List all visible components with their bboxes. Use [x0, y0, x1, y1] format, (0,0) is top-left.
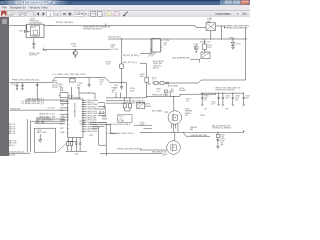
resistor R7911 label: [156, 89, 161, 93]
ground bottom right: [216, 147, 220, 149]
junction dots SLP rail: [121, 38, 211, 39]
capacitor C7923 plates: [120, 83, 123, 91]
svg-text:ACP: ACP: [61, 127, 64, 130]
svg-text:C7961: C7961: [211, 101, 216, 103]
wire ACIN row: [25, 99, 68, 101]
diode D7751: [166, 82, 169, 84]
capacitor C7962: [222, 93, 224, 106]
resistor R7751: [154, 82, 158, 85]
bottom page line: [9, 151, 31, 157]
svg-text:ACOK_DELAY: ACOK_DELAY: [168, 84, 179, 87]
window title bar: [0, 0, 250, 5]
diode D7005: [19, 30, 31, 32]
svg-text:R7904: R7904: [130, 88, 135, 90]
note rows right: [100, 79, 105, 85]
row net label L7910 a: [106, 100, 145, 102]
svg-text:SLOW: SLOW: [53, 85, 58, 87]
svg-text:R7950: R7950: [58, 84, 63, 86]
svg-text:CHGR_BGATE: CHGR_BGATE: [87, 99, 98, 102]
fit page icon: [97, 11, 102, 16]
svg-text:X5R: X5R: [225, 109, 229, 111]
svg-text:PP18V5_DCIN_SW_SRC: PP18V5_DCIN_SW_SRC: [226, 28, 248, 30]
svg-text:PRECHG: PRECHG: [190, 127, 198, 129]
page number box: [47, 11, 54, 16]
svg-text:ACIN: ACIN: [60, 99, 64, 102]
svg-text:BLOW: BLOW: [53, 87, 58, 89]
prev page arrow: [37, 12, 39, 16]
svg-text:0.1uF: 0.1uF: [211, 103, 215, 105]
title halo: [0, 0, 76, 5]
svg-text:PM_SLP_S4: PM_SLP_S4: [200, 41, 210, 43]
svg-text:SCL: SCL: [62, 116, 65, 118]
wire VDD feed: [71, 87, 73, 99]
svg-text:+C7903: +C7903: [164, 40, 170, 42]
junction PPBUS-R7905: [121, 82, 122, 83]
svg-text:1%: 1%: [100, 84, 103, 86]
svg-text:BATT_TH1: BATT_TH1: [9, 139, 17, 142]
battery connector drops: [27, 119, 30, 152]
transistor Q7705: [194, 46, 198, 53]
svg-text:CHGR_CSOP: CHGR_CSOP: [87, 111, 97, 113]
cluster R7950: [58, 84, 63, 90]
wire AON sense: [44, 48, 111, 50]
comparator box U7005: [59, 93, 69, 98]
junction gate: [170, 96, 174, 97]
svg-text:CHGR_CSON: CHGR_CSON: [87, 113, 98, 115]
IC right pin net labels: [87, 99, 98, 133]
svg-text:2.2uF 6.3V: 2.2uF 6.3V: [29, 55, 38, 57]
svg-text:PPBUS_G3H_BGATE: PPBUS_G3H_BGATE: [152, 93, 170, 96]
svg-text:+ PRECHG_BAT_PWR: + PRECHG_BAT_PWR: [190, 134, 208, 137]
svg-text:T.P.S 1.2: T.P.S 1.2: [119, 116, 125, 118]
svg-text:PM_SLP_S4_BUF_L: PM_SLP_S4_BUF_L: [123, 55, 140, 57]
bottom right value labels: [220, 134, 225, 146]
precharge branch wire: [183, 132, 210, 136]
svg-text:10.0K: 10.0K: [106, 64, 111, 66]
svg-text:PPBUS_G3H: PPBUS_G3H: [10, 109, 20, 111]
svg-text:C7966: C7966: [200, 115, 205, 117]
capacitor C7942: [88, 77, 91, 87]
svg-text:XXX A=2% Amax 3.5A: XXX A=2% Amax 3.5A: [9, 151, 26, 154]
svg-text:051-8132: 051-8132: [9, 155, 16, 156]
svg-text:DAC: DAC: [148, 82, 152, 85]
battery rail wire: [140, 131, 244, 132]
svg-text:PPBUS_G3H_CHGR_SNS_SCL: PPBUS_G3H_CHGR_SNS_SCL: [12, 80, 40, 82]
wire CSIP feed: [79, 93, 95, 99]
svg-text:10uF: 10uF: [204, 98, 208, 100]
svg-text:+C7941: +C7941: [77, 83, 83, 85]
zener D7911: [169, 88, 175, 96]
svg-text:CHGR_CSIN: CHGR_CSIN: [87, 118, 97, 120]
svg-text:C7025: C7025: [89, 135, 94, 137]
svg-text:25V: 25V: [204, 100, 207, 102]
svg-text:30V: 30V: [185, 115, 189, 117]
bus vertical V2: [110, 125, 117, 134]
bottom right stub: [217, 132, 219, 135]
wire input left: [9, 26, 27, 31]
svg-text:1.1v_SENSE_CHGR_VDD_R_C: 1.1v_SENSE_CHGR_VDD_R_C: [21, 101, 45, 103]
junction CHGR_REG drop: [221, 39, 222, 40]
highlight icon: [114, 11, 119, 15]
junction D7721: [233, 39, 234, 40]
capacitor C7941: [21, 83, 24, 91]
svg-text:16V: 16V: [204, 109, 207, 111]
row net label L7910 b: [106, 102, 146, 105]
svg-text:CHGR_DCIN: CHGR_DCIN: [87, 120, 97, 122]
label Q7910 info: [179, 88, 186, 92]
svg-text:1.7v_CONT: 1.7v_CONT: [46, 107, 54, 109]
wire CSON rail: [106, 96, 148, 98]
svg-text:EN 3V4: EN 3V4: [31, 27, 36, 29]
capacitor C7960: [201, 93, 203, 106]
wire battery diag: [57, 144, 67, 153]
svg-text:ICOMP: ICOMP: [80, 123, 85, 125]
note frame: [118, 115, 133, 123]
resistor R7905: [106, 39, 123, 83]
transistor Q7902: [73, 51, 78, 58]
resistor R7906: [140, 64, 152, 97]
separator: [34, 11, 36, 17]
label rows mid: [102, 116, 107, 120]
svg-text:0.1uF: 0.1uF: [220, 140, 224, 142]
svg-text:COMP: COMP: [60, 132, 65, 134]
svg-text:CHGR_CSIP: CHGR_CSIP: [87, 115, 96, 117]
svg-text:100: 100: [186, 100, 189, 102]
net label BAT_SNS row: [107, 123, 153, 126]
transistor Q7915: [137, 102, 151, 109]
svg-text:1000pF: 1000pF: [102, 119, 107, 121]
svg-text:R7721: R7721: [207, 45, 212, 47]
bottom resistor R7021: [67, 142, 69, 146]
note text right of fuse: [77, 83, 83, 89]
ground D7721: [231, 47, 235, 49]
wire 3V42 output: [44, 26, 206, 28]
battery sense labels: [212, 124, 232, 129]
svg-text:1.1.1_PPBUS_G3H_CHGR_SNS_F7940: 1.1.1_PPBUS_G3H_CHGR_SNS_F7940: [52, 74, 85, 76]
svg-text:100K: 100K: [220, 136, 224, 138]
fuse F7940: [69, 77, 75, 82]
svg-text:SMC_SLP_S4_Q: SMC_SLP_S4_Q: [123, 62, 138, 64]
pin row extension wires: [98, 102, 106, 126]
svg-text:R7751: R7751: [152, 78, 157, 80]
svg-text:VDD: VDD: [61, 104, 65, 106]
pin text column left of fuse: [53, 80, 59, 89]
svg-text:5% 1/16W: 5% 1/16W: [111, 49, 119, 51]
IC bottom right rows: [80, 121, 111, 145]
toolbar: [0, 10, 250, 20]
inductor L7920 label: [207, 18, 212, 24]
svg-text:ACIN_DETECT: ACIN_DETECT: [153, 60, 164, 63]
charger IC U7000 body: [68, 99, 84, 138]
svg-text:25V: 25V: [164, 44, 168, 46]
resistor R7903 label block: [111, 44, 119, 50]
svg-text:C7921: C7921: [220, 138, 225, 140]
junction dots charger: [221, 25, 225, 28]
label Q7910 part block: [185, 108, 192, 117]
bottom capacitor C7021: [75, 141, 78, 146]
next page arrow: [43, 12, 45, 16]
svg-text:PPBUS_G3H_CHGR_BYP: PPBUS_G3H_CHGR_BYP: [216, 90, 235, 92]
svg-text:R7903: R7903: [112, 88, 117, 90]
diode D7721: [231, 39, 241, 47]
resistor R7932: [125, 98, 132, 111]
wire L7920 to SLP rail: [210, 31, 212, 40]
svg-text:10uF: 10uF: [225, 98, 229, 100]
capacitor C7923 label: [114, 85, 119, 89]
save icon: [8, 11, 13, 16]
net label SMC_BLAST_L: [152, 110, 168, 113]
svg-text:DCIN: DCIN: [60, 110, 64, 112]
svg-text:B7S02: B7S02: [229, 38, 234, 40]
capacitor C7961: [217, 93, 219, 106]
test point TP1: [99, 111, 101, 113]
caps rail labels: [216, 87, 241, 91]
svg-text:D7721: D7721: [236, 44, 241, 46]
wire charger output: [216, 26, 226, 28]
fit width icon: [91, 11, 96, 16]
resistor R7921: [216, 135, 219, 138]
junction node 3V42: [49, 25, 50, 26]
svg-text:49.9K: 49.9K: [130, 90, 135, 92]
svg-text:BATT_P1: BATT_P1: [9, 123, 16, 126]
wire caps rail: [201, 93, 244, 94]
junction Q7902: [75, 49, 76, 50]
svg-text:2.2: 2.2: [152, 80, 154, 82]
note text: [83, 26, 111, 31]
svg-text:1.00K: 1.00K: [72, 46, 77, 48]
node stub: [105, 24, 107, 26]
svg-text:100K: 100K: [140, 76, 145, 78]
svg-text:SYSTEM_SCL_SENSE_R: SYSTEM_SCL_SENSE_R: [212, 128, 232, 130]
capacitor C7963: [232, 93, 234, 106]
junction CSON: [124, 96, 147, 98]
resistor R7920 label: [140, 122, 145, 126]
battery arrow symbol: [39, 134, 42, 142]
svg-text:R7903: R7903: [111, 44, 116, 46]
document area: [0, 17, 250, 156]
IC right pin rows: [83, 100, 86, 131]
svg-text:10uF: 10uF: [245, 98, 249, 100]
net SMC_SLP_S4 wire: [123, 62, 147, 64]
svg-text:R7920: R7920: [140, 122, 145, 124]
svg-text:R7940: R7940: [100, 79, 105, 81]
ground bus under IC: [66, 146, 87, 156]
zoom out: [63, 13, 66, 14]
pin bus vertical: [104, 102, 106, 109]
wire PPBUS feed bus: [55, 77, 126, 98]
svg-text:CHGR_ACIN_DET_R_C: CHGR_ACIN_DET_R_C: [27, 97, 45, 100]
svg-text:FDS4435: FDS4435: [179, 90, 186, 92]
svg-text:CELL: CELL: [60, 124, 64, 126]
battery connector pin labels: [9, 123, 16, 135]
wire to Q7910 drain: [173, 96, 175, 111]
transistor Q7721: [201, 50, 210, 59]
battery connector left wires: [30, 119, 65, 123]
svg-text:B+ SNS: B+ SNS: [119, 121, 124, 123]
ground below C7090: [29, 47, 40, 57]
svg-text:SMC_ADAPTER_EN: SMC_ADAPTER_EN: [172, 57, 190, 60]
svg-text:D7005: D7005: [19, 31, 24, 33]
test point TP2: [103, 111, 105, 113]
regulator U7090 body: [26, 24, 44, 37]
svg-text:PPBUS_G3H_CHGR_SDA: PPBUS_G3H_CHGR_SDA: [125, 102, 146, 105]
doc icon: [14, 11, 19, 16]
net label PM_BAT row1: [107, 133, 135, 135]
svg-text:CHGR_PGND: CHGR_PGND: [87, 131, 98, 133]
mid text cluster above SLP rail: [112, 88, 136, 94]
svg-text:PPBUS_G3H_CHGR_PRECHG: PPBUS_G3H_CHGR_PRECHG: [118, 149, 143, 151]
wire Q7920 link: [174, 132, 176, 140]
resistor R7911 body: [165, 90, 168, 96]
printer icon: [20, 12, 25, 15]
svg-text:C7964: C7964: [245, 96, 250, 98]
svg-text:CHGR_SCL: CHGR_SCL: [153, 65, 162, 67]
svg-text:10.0K: 10.0K: [140, 125, 145, 127]
wire SLP_S4 rail: [108, 38, 247, 40]
capacitor C7964: [243, 93, 245, 106]
capacitor C7921: [217, 138, 220, 147]
svg-text:J7950: J7950: [37, 130, 41, 132]
svg-text:NDS332: NDS332: [145, 106, 151, 108]
svg-text:10uF: 10uF: [235, 98, 239, 100]
svg-text:1.4W: 1.4W: [74, 154, 78, 156]
wire PPBUS_G3H left: [10, 77, 56, 82]
IC bottom drops: [67, 138, 80, 142]
charger IC U7000 label: [68, 96, 82, 100]
label rows above R7751: [152, 78, 157, 82]
junction CSIP: [88, 93, 89, 94]
wire CHGR_REG drop: [221, 26, 223, 39]
net SMC_ADAPTER_EN: [172, 57, 199, 63]
label R7971: [186, 98, 191, 102]
IC left pin wires: [10, 102, 68, 121]
svg-text:SMC_BGATE: SMC_BGATE: [152, 110, 163, 113]
svg-text:C7960: C7960: [204, 96, 209, 98]
svg-text:BAT_SNS_BLKBOX_SCL: BAT_SNS_BLKBOX_SCL: [212, 124, 231, 127]
svg-text:PP3V42_G3H_AON: PP3V42_G3H_AON: [56, 21, 74, 24]
svg-text:0.02: 0.02: [100, 82, 103, 84]
svg-text:C7940: C7940: [11, 84, 16, 86]
svg-text:Q7910: Q7910: [185, 108, 190, 110]
bottom resistor R7022: [71, 142, 73, 146]
battery note labels: [9, 139, 17, 146]
svg-text:CHGR_BOOT: CHGR_BOOT: [87, 106, 97, 108]
red adobe icon: [1, 10, 7, 16]
svg-text:CHGR_LX: CHGR_LX: [87, 102, 95, 104]
svg-text:10uF: 10uF: [77, 85, 81, 87]
svg-text:ISL6259AHRTZ: ISL6259AHRTZ: [73, 103, 76, 118]
divider wire from PPBUS: [36, 83, 38, 101]
email icon: [27, 11, 34, 16]
net label PM_BATLOW row: [118, 149, 167, 151]
junction dots caps rail: [202, 93, 245, 94]
svg-text:Q7910: Q7910: [179, 88, 184, 90]
wire PM_SLP_S4_BUF: [140, 39, 151, 54]
wire gate rail: [148, 94, 216, 96]
svg-text:100K: 100K: [111, 47, 116, 49]
svg-text:25V: 25V: [235, 100, 238, 102]
svg-text:10uF: 10uF: [164, 42, 168, 44]
mosfet Q7910: [168, 111, 182, 133]
zoom in: [68, 12, 71, 15]
svg-text:R7921: R7921: [220, 134, 225, 136]
svg-text:R7971: R7971: [186, 98, 191, 100]
connector J7901 body: [152, 39, 162, 53]
divider plates: [36, 84, 39, 85]
svg-text:PPBUS_G3H_CHGR_CSON 1.1W: PPBUS_G3H_CHGR_CSON 1.1W: [216, 87, 241, 89]
svg-text:C7962: C7962: [225, 96, 230, 98]
resistor R7931: [123, 98, 126, 111]
svg-text:Q7915: Q7915: [145, 104, 150, 106]
svg-text:VCOMP: VCOMP: [80, 121, 86, 123]
cap bank value labels: [204, 96, 250, 111]
bottom capacitor C7022: [79, 141, 82, 146]
svg-text:SI7686DP: SI7686DP: [185, 111, 192, 113]
signature pen icon: [123, 11, 128, 15]
svg-text:SMBUS_SMC_5_SCL: SMBUS_SMC_5_SCL: [39, 114, 55, 116]
resistor R7902 label: [71, 44, 77, 48]
IC left pin names: [60, 99, 66, 134]
svg-text:C7090: C7090: [42, 50, 47, 52]
svg-text:CURRENT 0.02 OHM 1%: CURRENT 0.02 OHM 1%: [83, 29, 103, 31]
junction dots battery rail: [171, 131, 244, 133]
svg-text:19/7: 19/7: [162, 153, 168, 156]
comment bubble icon: [107, 11, 112, 15]
battery connector net labels: [36, 117, 50, 124]
capacitor C7903 label: [164, 40, 170, 46]
capacitor C7090: [32, 39, 47, 52]
svg-text:PP3V42_G3H: PP3V42_G3H: [29, 53, 40, 55]
wire R7920 stub: [144, 128, 153, 130]
adapter sense wire: [152, 28, 246, 83]
wire DCIN feed: [78, 87, 80, 99]
connector fanout wires: [148, 48, 156, 57]
net labels left bus: [10, 101, 56, 122]
resistor R7721: [203, 39, 213, 50]
svg-text:16V: 16V: [220, 142, 223, 144]
svg-text:C7923: C7923: [114, 85, 119, 87]
svg-text:PM_SLP_S4_L: PM_SLP_S4_L: [109, 37, 122, 39]
node dots pin rows: [103, 106, 104, 116]
svg-text:1%: 1%: [112, 92, 115, 94]
inductor L7920 body: [206, 23, 216, 31]
capacitor C7940: [16, 83, 19, 91]
bottom sheet wire: [100, 153, 162, 155]
chrome text and buttons: [0, 0, 250, 10]
menu bar: [0, 5, 250, 10]
svg-text:X7R: X7R: [220, 144, 224, 146]
svg-text:C7963: C7963: [235, 96, 240, 98]
zoom percent box: [74, 11, 83, 16]
precharge labels: [190, 127, 198, 131]
svg-text:R7911: R7911: [156, 89, 161, 91]
svg-text:10.0K: 10.0K: [207, 47, 212, 49]
svg-text:25V: 25V: [77, 87, 81, 89]
bus vertical V1: [105, 122, 107, 156]
svg-text:1.2K: 1.2K: [156, 91, 160, 93]
svg-text:0.5 x 2: 0.5 x 2: [119, 119, 124, 121]
svg-text:C7935: C7935: [102, 116, 107, 118]
svg-text:100K: 100K: [112, 90, 117, 92]
pin label column J7901: [153, 60, 164, 70]
battery connector J7950 body: [34, 128, 55, 152]
wire corner stub: [104, 108, 107, 115]
mosfet Q7920: [167, 141, 181, 155]
divider wires into CSON rail: [116, 93, 120, 98]
regulator U7090 label: [29, 19, 42, 25]
resistor R7752: [160, 82, 164, 85]
